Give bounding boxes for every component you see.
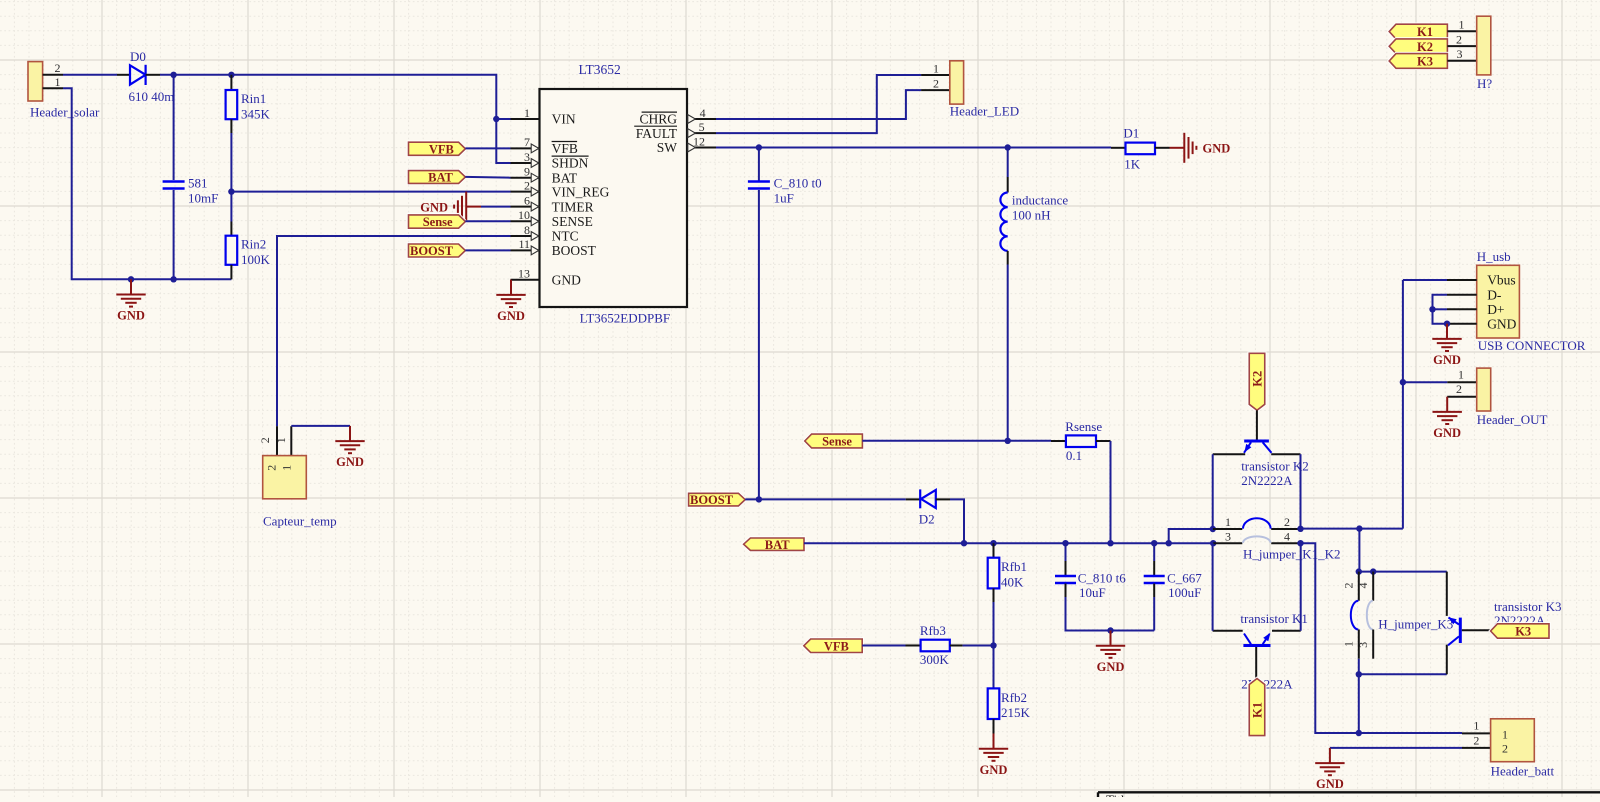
svg-text:1: 1 [1473,719,1479,733]
wire D- to GND [1433,295,1448,324]
wire K3 collector lead [1446,572,1448,616]
wire K1 collector up [1300,543,1302,631]
net flag K1 [1389,24,1447,39]
wire NTC to Capteur_temp [277,236,511,426]
wire jumper K3 pin3 line [1372,630,1374,659]
svg-text:BOOST: BOOST [410,244,454,258]
svg-text:VIN: VIN [552,112,576,127]
svg-text:K1: K1 [1417,25,1433,39]
pin Vbus H_usb [1447,279,1477,281]
svg-text:GND: GND [1487,316,1516,331]
junction VIN_REG tap [228,188,234,194]
pin 10 SENSE [511,220,540,222]
wire Rfb1 bottom stub [993,588,995,602]
svg-text:100K: 100K [241,252,271,267]
wire K2 base stub [1256,410,1258,439]
junction C810t0 top [756,144,762,150]
wire BAT rail [804,542,1213,544]
resistor Rsense 0.1 [1066,435,1096,447]
svg-text:K3: K3 [1417,55,1433,69]
wire C667 bottom stub [1153,584,1155,598]
svg-text:2: 2 [1342,583,1356,589]
svg-text:2N2222A: 2N2222A [1241,473,1293,488]
wire Vin top rail to SHDN [160,75,511,163]
ground GND1 [116,279,145,306]
svg-text:100 nH: 100 nH [1012,207,1051,222]
svg-text:BAT: BAT [765,538,790,552]
svg-text:1: 1 [1458,367,1464,381]
wire to VIN pin [496,118,510,120]
wire Rfb3 left stub [906,645,921,647]
ground GND at Header_batt [1315,748,1344,775]
svg-text:Rin2: Rin2 [241,237,266,252]
svg-text:4: 4 [700,106,706,120]
wire Rfb3 right stub [950,645,963,647]
wire C667 bottom lead [1153,597,1155,631]
junction C581 top [170,72,176,78]
capacitor C_810 t6 10uF [1055,576,1076,583]
svg-text:transistor K1: transistor K1 [1240,611,1308,626]
svg-text:Capteur_temp: Capteur_temp [263,514,337,529]
svg-text:GND: GND [336,455,364,469]
wire Header_batt pin2 [1330,747,1462,749]
svg-text:3: 3 [524,150,530,164]
wire VFB to Rfb3 [862,645,905,647]
svg-text:2: 2 [1456,32,1462,46]
connector H? [1447,16,1492,91]
svg-text:2: 2 [55,61,61,75]
wire K3 emitter lead [1446,645,1448,675]
wire C667 top lead [1153,543,1155,561]
svg-text:Sense: Sense [423,215,453,229]
junction to jumper K3 [1356,525,1362,531]
wire jumper pin4 line [1271,542,1300,544]
pin 7 VFB [511,147,540,149]
capacitor C_810 t0 1uF [748,182,770,189]
svg-text:10uF: 10uF [1079,585,1106,600]
svg-text:VFB: VFB [429,142,454,156]
ground GND at USB [1432,324,1461,351]
junction OUT pin1 [1400,379,1406,385]
svg-text:2: 2 [1502,741,1508,755]
svg-text:H_jumper_K3: H_jumper_K3 [1378,617,1453,632]
junction VIN tap [493,116,499,122]
svg-text:BAT: BAT [552,170,578,185]
wire FAULT to LED pin1 [716,75,921,133]
svg-text:40K: 40K [1001,574,1024,589]
connector Header_solar [28,61,100,120]
svg-text:4: 4 [1356,583,1370,589]
svg-text:GND: GND [1097,660,1125,674]
capacitor 581 10mF [163,182,185,189]
svg-text:GND: GND [117,309,145,323]
connector Capteur_temp [263,426,307,499]
junction pin2 [1297,526,1303,532]
wire C810t0 top lead [758,148,760,181]
wire BAT flag to pin [465,176,510,179]
svg-text:1: 1 [1502,727,1508,741]
pin GND H_usb [1447,323,1477,325]
svg-text:GND: GND [1433,353,1461,367]
svg-text:USB CONNECTOR: USB CONNECTOR [1478,338,1586,353]
connector Header_LED [921,61,1019,119]
wire C667 top stub [1153,561,1155,575]
wire Vbus [1403,279,1447,281]
svg-text:4: 4 [1284,530,1290,544]
svg-text:Rfb2: Rfb2 [1001,690,1027,705]
wire Rsense right stub [1096,440,1111,442]
connector Header_OUT [1447,367,1547,427]
pin 11 BOOST [511,249,540,251]
wire D+ [1433,308,1448,310]
wire Rsense to BAT rail [1110,441,1112,543]
junction caps gnd [1107,627,1113,633]
svg-text:BOOST: BOOST [552,243,597,258]
svg-text:VIN_REG: VIN_REG [552,184,610,199]
wire VFB flag to pin [465,147,510,149]
svg-text:GND: GND [980,763,1008,777]
svg-text:1: 1 [1342,641,1356,647]
svg-text:GND: GND [552,272,581,287]
wire D2 to BAT rail [950,499,964,543]
svg-text:3: 3 [1457,47,1463,61]
wire jumper K3 top rail [1359,571,1447,573]
wire BOOST flag to pin [465,249,510,251]
wire Vbus vertical [1402,280,1404,529]
wire gnd to TIMER pin [481,206,511,208]
wire Rin1-Rin2 [230,133,232,222]
wire Rin1 top stub [230,75,232,90]
svg-text:K1: K1 [1251,702,1265,718]
wire inductor to Sense rail [1007,265,1009,441]
junction BAT rail [1210,540,1216,546]
net flag K3 [1389,54,1447,69]
wire D2 right stub [936,498,950,500]
svg-text:BOOST: BOOST [690,493,734,507]
svg-text:Rin1: Rin1 [241,91,266,106]
svg-text:VFB: VFB [552,141,578,156]
pin 1 VIN [511,118,540,120]
wire K3 base lead [1462,629,1491,631]
svg-text:2: 2 [258,437,272,443]
net flag Sense lower [805,434,863,448]
wire C810t6 bottom stub [1065,584,1067,598]
wire C581 bottom lead [173,190,175,279]
svg-text:transistor K3: transistor K3 [1494,599,1562,614]
svg-text:6: 6 [524,193,530,207]
junction inductor bottom [1005,438,1011,444]
connector Header_batt [1462,719,1555,779]
svg-text:2: 2 [933,76,939,90]
junction inductor top [1005,144,1011,150]
svg-text:10mF: 10mF [188,191,218,206]
svg-text:8: 8 [524,223,530,237]
svg-text:GND: GND [420,200,448,214]
svg-text:1: 1 [933,62,939,76]
wire Rfb3 to divider [963,645,994,647]
capacitor C_667 100uF [1144,576,1165,583]
transistor K2 2N2222A [1244,441,1272,453]
resistor Rin1 345K [226,90,238,119]
wire inductor top stub [1007,177,1009,193]
svg-text:2: 2 [1456,382,1462,396]
junction Rin1 top [228,72,234,78]
pin D- H_usb [1447,294,1477,296]
net flag VFB lower [804,639,862,653]
pin 6 TIMER [511,206,540,208]
wire cathode stub [146,74,160,76]
wire SW rail [716,147,1111,149]
svg-text:1uF: 1uF [774,190,794,205]
transistor K1 2N2222A [1243,634,1270,646]
wire jumper pin1 line [1213,528,1242,530]
net flag BAT lower [744,538,804,550]
junction BAT rail [1107,540,1113,546]
svg-text:1: 1 [55,75,61,89]
svg-text:Rfb3: Rfb3 [920,623,946,638]
wire Rin2 bottom stub [230,265,232,280]
wire jumper pin1 branch [1169,529,1213,543]
svg-text:1: 1 [274,437,288,443]
wire inductor bottom stub [1007,251,1009,265]
resistor Rfb3 300K [921,640,950,652]
junction BAT rail [1151,540,1157,546]
svg-text:LT3652: LT3652 [579,62,621,77]
wire pin2 row to Vbus vertical [1301,528,1403,530]
svg-text:2: 2 [1473,734,1479,748]
svg-text:300K: 300K [920,652,950,667]
svg-text:GND: GND [1316,777,1344,791]
pin 8 NTC [511,235,540,237]
svg-text:FAULT: FAULT [636,126,678,141]
wire Rfb1 top stub [993,543,995,558]
wire Rin2 top stub [230,222,232,236]
wire K1 base stub [1255,647,1257,678]
wire Sense rail [862,440,1051,442]
svg-text:H?: H? [1477,76,1492,91]
svg-text:Header_LED: Header_LED [950,104,1019,119]
pin 3 SHDN [511,162,540,164]
svg-text:2: 2 [524,178,530,192]
wire Capteur pin1 to gnd [291,425,350,427]
pin 2 VIN_REG [511,191,540,193]
wire C810t6 top stub [1065,561,1067,575]
svg-text:581: 581 [188,176,208,191]
wire K2 emitter lead [1213,453,1246,455]
pin D+ H_usb [1447,308,1477,310]
wire BOOST rail [745,498,906,500]
wire D1 left stub [1111,147,1126,149]
wire K2 collector lead [1271,453,1300,455]
junction pin4 [1297,540,1303,546]
wire jumper K3 pin4 line [1372,572,1374,601]
junction C810t0 bottom [756,496,762,502]
net flag K1 vertical [1249,679,1265,736]
svg-text:D1: D1 [1123,126,1139,141]
net flag BOOST upper [409,244,466,257]
ground GND at Header_OUT [1433,397,1462,424]
svg-text:Header_batt: Header_batt [1491,764,1555,779]
wire jumper pin2 line [1271,528,1300,530]
net flag BAT [409,171,466,184]
wire pin4 to Header_batt pin1 [1301,543,1463,733]
ground GND at Capteur [335,426,364,453]
pin 4 CHRG [687,118,716,120]
wire anode stub [117,74,130,76]
svg-text:610 40m: 610 40m [129,89,175,104]
wire Header_OUT pin1 [1403,381,1447,383]
svg-text:10: 10 [518,208,530,222]
diode D2 [920,489,936,508]
wire caps ground rail [1066,597,1155,631]
junction VFB tap [990,642,996,648]
net flag K2 [1389,39,1447,54]
resistor Rin2 100K [226,236,238,265]
svg-text:11: 11 [518,237,530,251]
svg-text:1K: 1K [1124,156,1141,171]
svg-text:C_810 t0: C_810 t0 [774,176,822,191]
junction C581 bottom [170,276,176,282]
wire C810t6 top lead [1065,543,1067,561]
wire Rfb1-Rfb2 [993,602,995,688]
svg-text:Header_solar: Header_solar [30,105,100,120]
junction gnd rail [128,276,134,282]
wire K1 emitter lead [1213,630,1243,632]
wire Sense flag to pin [465,220,510,222]
resistor D1 body [1126,143,1156,155]
svg-text:H_jumper_K1_K2: H_jumper_K1_K2 [1243,547,1341,562]
wire jumper K3 pin1 down [1358,659,1360,733]
svg-text:SW: SW [657,140,678,155]
svg-text:C_810 t6: C_810 t6 [1078,570,1127,585]
wire to VIN_REG pin [231,191,510,193]
svg-text:D0: D0 [130,49,146,64]
svg-text:Rsense: Rsense [1065,419,1102,434]
junction pin2 top [1356,568,1362,574]
svg-text:SHDN: SHDN [552,156,589,171]
svg-text:12: 12 [693,134,705,148]
svg-text:transistor K2: transistor K2 [1241,459,1309,474]
svg-text:13: 13 [518,267,530,281]
pin 5 FAULT [687,132,716,134]
junction pin4 top [1370,568,1376,574]
wire C581 top lead [173,75,175,180]
svg-text:H_usb: H_usb [1477,249,1511,264]
svg-text:inductance: inductance [1012,193,1069,208]
op-amp U1 LT3652 body [540,89,688,307]
svg-text:Title: Title [1106,792,1130,797]
ground GND at pin 13 [496,280,525,307]
svg-text:Rfb1: Rfb1 [1001,559,1027,574]
pin 9 BAT [511,177,540,179]
svg-text:Vbus: Vbus [1487,273,1516,288]
svg-text:GND: GND [1433,426,1461,440]
svg-text:K2: K2 [1251,371,1265,387]
wire Rsense left stub [1051,440,1066,442]
svg-text:NTC: NTC [552,229,579,244]
junction BAT rail [990,540,996,546]
diode D0 [130,65,146,85]
junction BAT rail [1062,540,1068,546]
wire Rfb2 bottom stub [993,719,995,734]
svg-text:GND: GND [1203,142,1231,156]
net flag VFB [409,142,466,155]
title block [1098,791,1600,793]
net flag BOOST lower [689,493,746,506]
svg-text:C_667: C_667 [1167,570,1202,585]
svg-text:1: 1 [1225,515,1231,529]
ground GND at caps [1096,631,1125,658]
wire inductor top lead [1007,148,1009,178]
svg-text:D2: D2 [919,512,935,527]
junction D+ [1429,306,1435,312]
svg-text:0.1: 0.1 [1066,448,1082,463]
svg-text:345K: 345K [241,106,271,121]
wire jumper K3 pin1 line [1358,630,1360,659]
svg-text:D-: D- [1487,288,1502,303]
wire down to jumper K3 [1358,529,1360,572]
svg-text:TIMER: TIMER [552,199,594,214]
svg-text:GND: GND [497,309,525,323]
junction usb gnd [1444,321,1450,327]
svg-text:D+: D+ [1487,302,1504,317]
wire K2 emitter down [1212,454,1214,529]
svg-text:215K: 215K [1001,705,1031,720]
svg-text:SENSE: SENSE [552,214,593,229]
wire jumper pin3 line [1213,542,1242,544]
svg-text:VFB: VFB [824,639,849,653]
resistor Rfb2 215K [988,688,1000,719]
svg-text:K3: K3 [1515,625,1531,639]
junction batt row [1356,730,1362,736]
svg-text:2: 2 [265,465,279,471]
svg-text:K2: K2 [1417,40,1433,54]
svg-text:9: 9 [524,165,530,179]
net flag K3 at transistor [1491,624,1549,638]
svg-text:Sense: Sense [822,435,852,449]
wire jumper K3 pin2 line [1358,572,1360,601]
wire D1 right stub [1155,147,1170,149]
wire jumper K3 bottom rail [1359,673,1447,675]
ground sideways GND at TIMER [454,192,481,222]
ground sideways GND at D1 [1170,133,1197,163]
wire Rin1 bottom stub [230,119,232,133]
svg-text:LT3652EDDPBF: LT3652EDDPBF [580,311,671,326]
junction K3 emitter row [1356,671,1362,677]
svg-text:1: 1 [1459,17,1465,31]
svg-text:1: 1 [524,106,530,120]
junction BAT rail [1166,540,1172,546]
wire solar pin1 to ground rail [63,88,231,279]
svg-text:7: 7 [524,135,530,149]
svg-text:1: 1 [280,465,294,471]
svg-text:Header_OUT: Header_OUT [1477,412,1548,427]
pin 13 GND [511,279,540,281]
svg-text:3: 3 [1225,530,1231,544]
wire D2 left stub [906,498,921,500]
wire solar pin2 to D0 [63,74,117,76]
wire K1 collector lead [1272,630,1301,632]
wire K2 collector down [1300,454,1302,529]
svg-text:CHRG: CHRG [639,112,677,127]
svg-text:BAT: BAT [428,171,453,185]
junction pin1/K2 emitter [1210,526,1216,532]
wire CHRG to LED pin2 [716,90,921,119]
net flag Sense upper [409,215,466,228]
svg-text:3: 3 [1356,642,1370,648]
svg-text:100uF: 100uF [1168,585,1201,600]
wire C810t0 bottom lead [758,190,760,499]
